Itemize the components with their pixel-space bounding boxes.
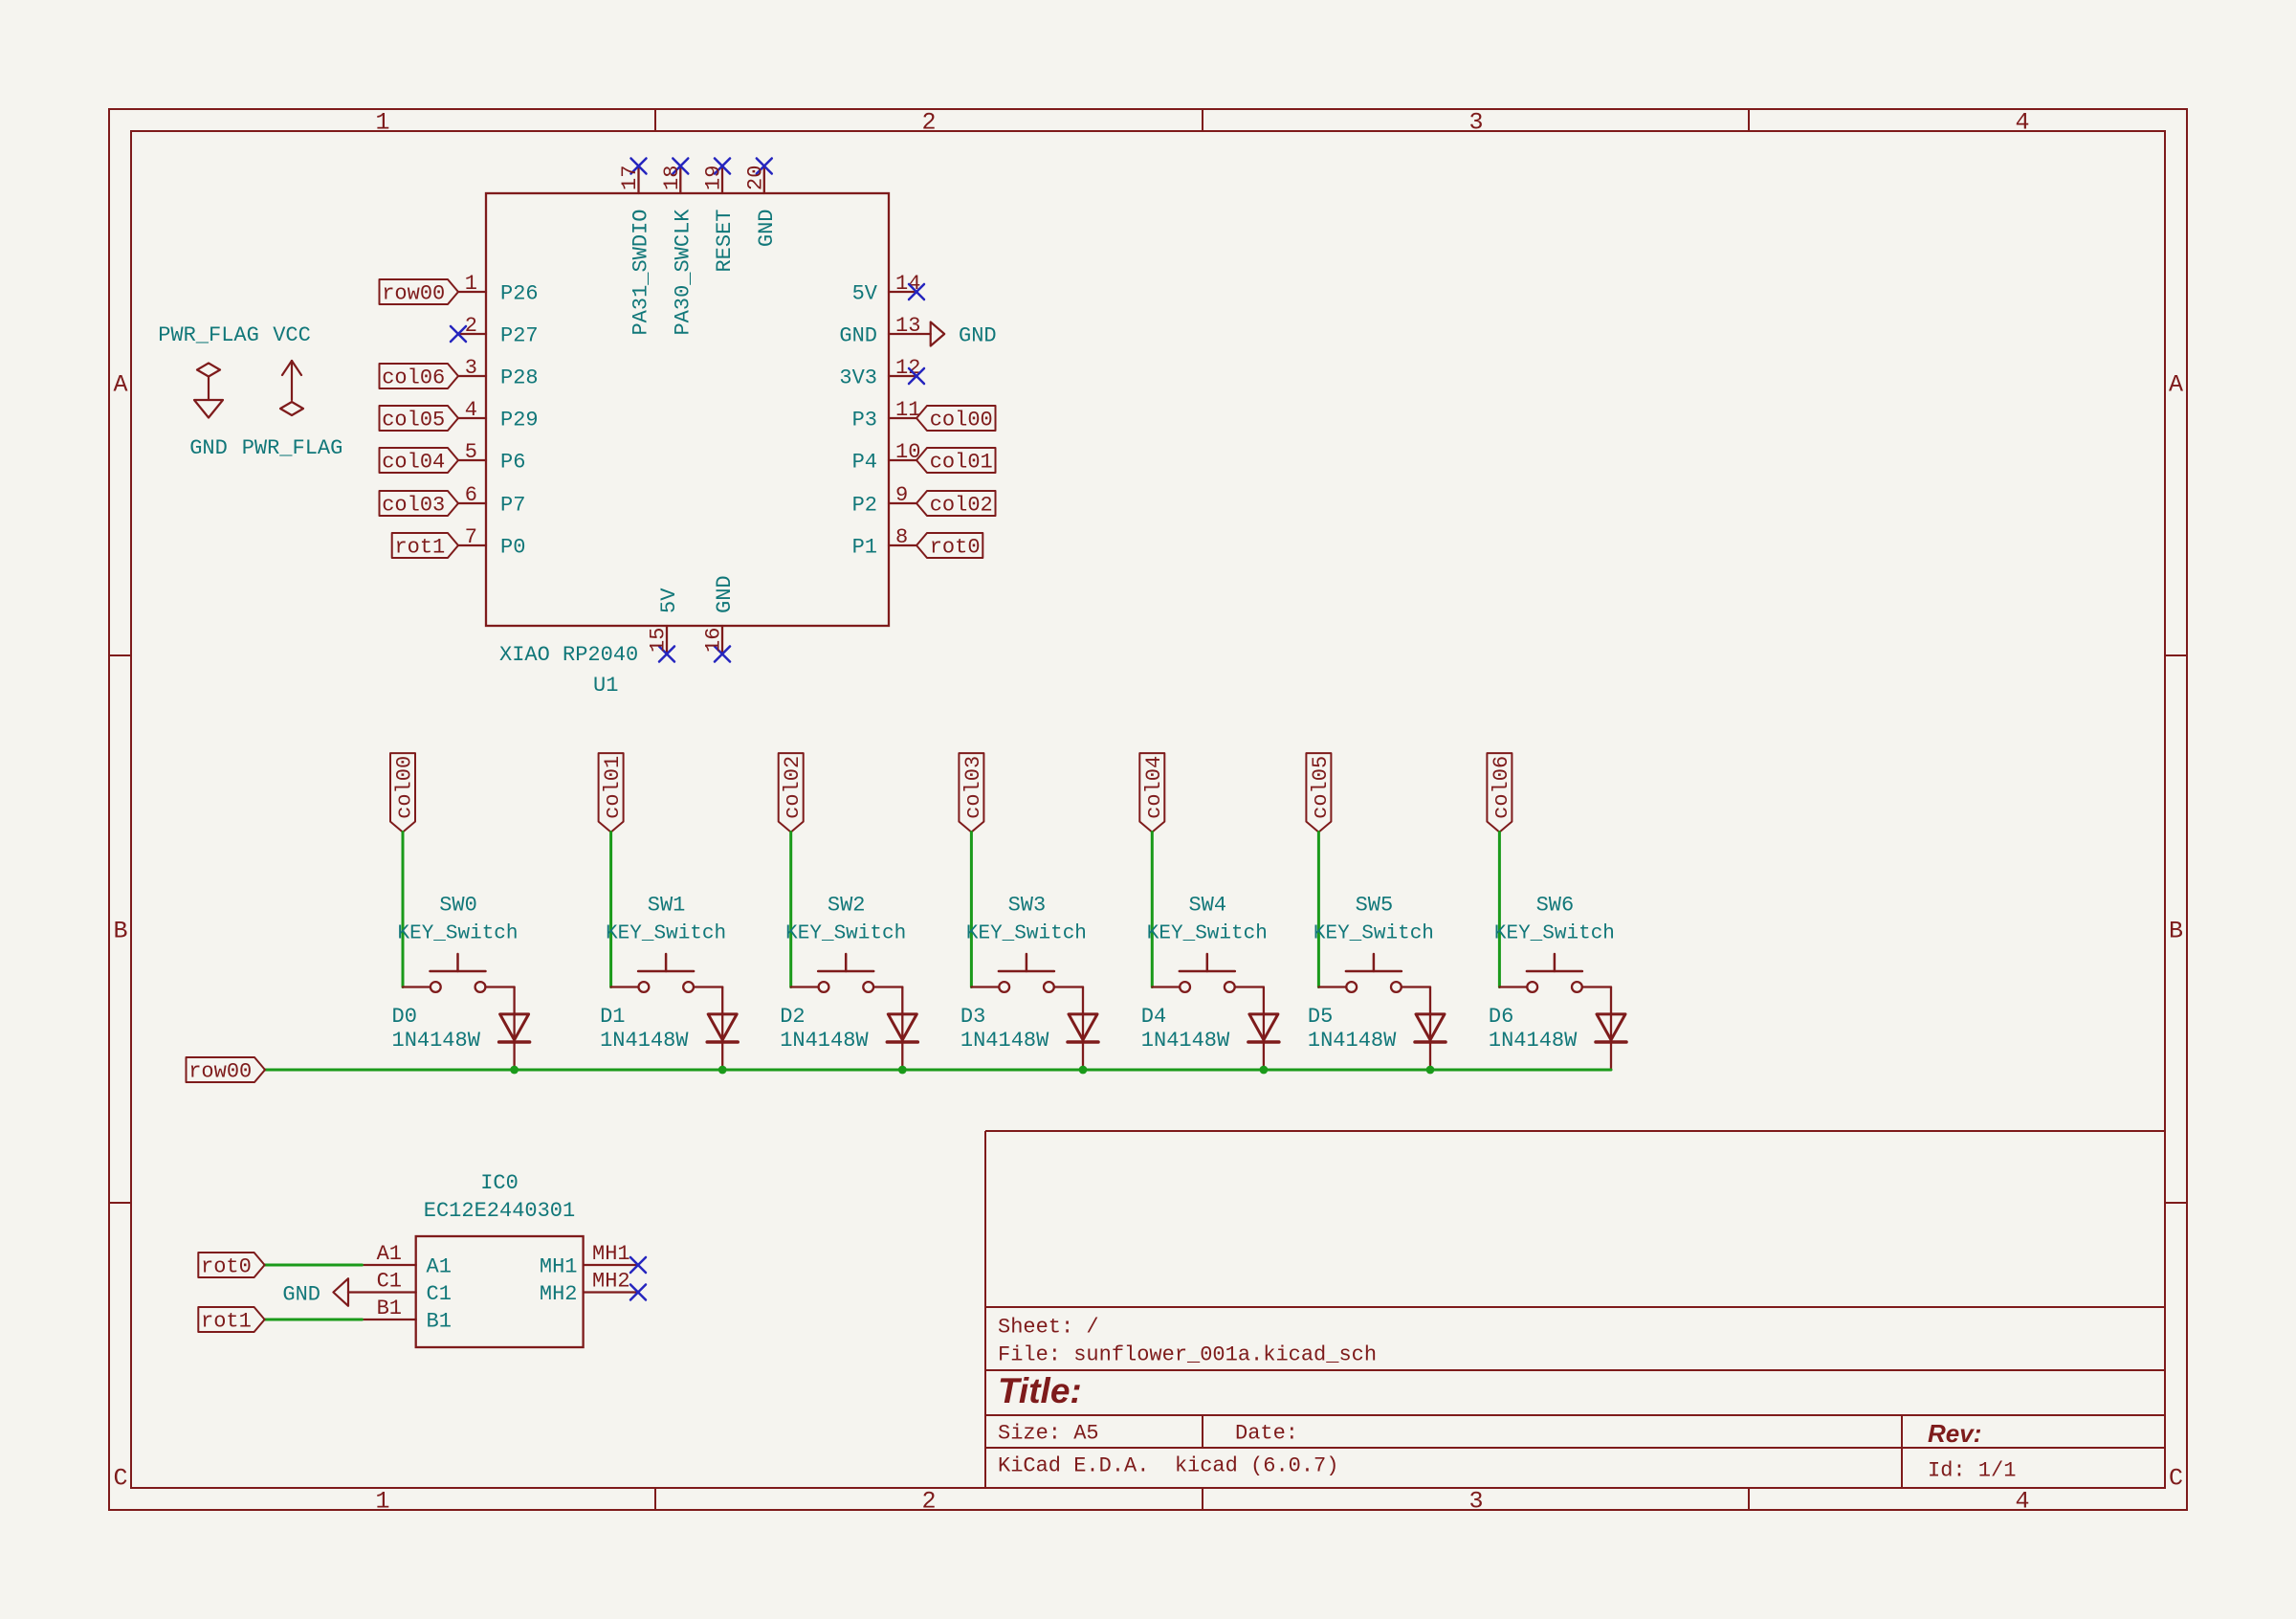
svg-text:KEY_Switch: KEY_Switch — [966, 923, 1087, 945]
svg-text:col03: col03 — [961, 756, 985, 819]
svg-text:D5: D5 — [1308, 1005, 1333, 1029]
svg-text:col02: col02 — [781, 756, 805, 819]
svg-text:MH2: MH2 — [540, 1282, 578, 1306]
svg-text:SW2: SW2 — [828, 894, 866, 918]
svg-text:P29: P29 — [500, 409, 539, 432]
svg-text:6: 6 — [465, 483, 477, 507]
svg-text:3: 3 — [1468, 1488, 1483, 1516]
svg-text:GND: GND — [755, 210, 779, 248]
svg-text:Size: A5: Size: A5 — [998, 1422, 1099, 1446]
svg-text:15: 15 — [647, 628, 671, 653]
svg-text:A: A — [2169, 371, 2183, 399]
svg-text:rot1: rot1 — [201, 1310, 252, 1334]
svg-text:C: C — [113, 1465, 127, 1493]
svg-text:1N4148W: 1N4148W — [392, 1029, 481, 1053]
svg-text:9: 9 — [895, 483, 908, 507]
svg-text:MH1: MH1 — [540, 1255, 578, 1279]
svg-text:Date:: Date: — [1235, 1422, 1298, 1446]
svg-text:GND: GND — [959, 324, 997, 348]
svg-text:GND: GND — [713, 575, 737, 613]
svg-text:EC12E2440301: EC12E2440301 — [424, 1199, 575, 1223]
svg-text:D4: D4 — [1141, 1005, 1166, 1029]
svg-text:1: 1 — [465, 272, 477, 296]
svg-text:SW5: SW5 — [1356, 894, 1394, 918]
svg-text:5V: 5V — [852, 282, 878, 306]
svg-text:P2: P2 — [852, 494, 877, 518]
svg-text:SW1: SW1 — [648, 894, 686, 918]
svg-text:col03: col03 — [382, 494, 445, 518]
svg-text:SW6: SW6 — [1536, 894, 1575, 918]
svg-text:RESET: RESET — [713, 210, 737, 273]
svg-text:1N4148W: 1N4148W — [960, 1029, 1049, 1053]
svg-text:C1: C1 — [377, 1270, 402, 1294]
svg-text:col00: col00 — [393, 756, 417, 819]
svg-text:7: 7 — [465, 525, 477, 549]
svg-text:P27: P27 — [500, 324, 539, 348]
svg-text:MH2: MH2 — [592, 1270, 630, 1294]
svg-text:col04: col04 — [1142, 756, 1166, 819]
svg-text:col05: col05 — [1309, 756, 1333, 819]
svg-text:col00: col00 — [930, 409, 993, 432]
svg-text:SW0: SW0 — [439, 894, 477, 918]
svg-text:4: 4 — [2015, 1488, 2029, 1516]
svg-text:col04: col04 — [382, 451, 445, 475]
svg-text:2: 2 — [921, 1488, 936, 1516]
svg-text:GND: GND — [282, 1283, 320, 1307]
svg-text:U1: U1 — [593, 674, 618, 698]
svg-text:IC0: IC0 — [480, 1171, 519, 1195]
svg-text:col02: col02 — [930, 494, 993, 518]
svg-text:17: 17 — [618, 166, 642, 190]
svg-text:C1: C1 — [427, 1282, 452, 1306]
svg-text:rot0: rot0 — [201, 1255, 252, 1279]
svg-text:1N4148W: 1N4148W — [780, 1029, 869, 1053]
svg-text:File: sunflower_001a.kicad_sch: File: sunflower_001a.kicad_sch — [998, 1343, 1377, 1367]
svg-text:P28: P28 — [500, 366, 539, 390]
svg-text:3V3: 3V3 — [839, 366, 877, 390]
svg-text:KEY_Switch: KEY_Switch — [1314, 923, 1434, 945]
svg-text:D3: D3 — [960, 1005, 985, 1029]
svg-text:D2: D2 — [780, 1005, 805, 1029]
svg-text:P3: P3 — [852, 409, 877, 432]
svg-text:1N4148W: 1N4148W — [1141, 1029, 1230, 1053]
svg-text:A: A — [113, 371, 127, 399]
svg-text:MH1: MH1 — [592, 1242, 630, 1266]
svg-text:P0: P0 — [500, 536, 525, 560]
svg-text:16: 16 — [702, 628, 726, 653]
svg-text:KiCad E.D.A. kicad (6.0.7): KiCad E.D.A. kicad (6.0.7) — [998, 1454, 1338, 1478]
svg-text:col05: col05 — [382, 409, 445, 432]
svg-text:col06: col06 — [382, 366, 445, 390]
svg-text:B: B — [2169, 918, 2183, 945]
svg-text:PA30_SWCLK: PA30_SWCLK — [671, 209, 695, 336]
svg-text:1: 1 — [375, 109, 389, 137]
svg-text:B1: B1 — [377, 1297, 402, 1320]
svg-text:3: 3 — [1468, 109, 1483, 137]
svg-text:KEY_Switch: KEY_Switch — [606, 923, 726, 945]
svg-text:C: C — [2169, 1465, 2183, 1493]
svg-text:Id: 1/1: Id: 1/1 — [1928, 1459, 2016, 1483]
svg-text:col01: col01 — [930, 451, 993, 475]
svg-text:PA31_SWDIO: PA31_SWDIO — [629, 210, 653, 336]
svg-text:D6: D6 — [1489, 1005, 1513, 1029]
svg-text:1: 1 — [375, 1488, 389, 1516]
svg-text:Sheet: /: Sheet: / — [998, 1316, 1099, 1340]
svg-text:2: 2 — [921, 109, 936, 137]
svg-text:Rev:: Rev: — [1928, 1419, 1981, 1448]
svg-text:KEY_Switch: KEY_Switch — [1147, 923, 1268, 945]
svg-text:5V: 5V — [657, 588, 681, 613]
svg-text:P6: P6 — [500, 451, 525, 475]
svg-text:SW3: SW3 — [1008, 894, 1047, 918]
svg-text:col01: col01 — [601, 756, 625, 819]
svg-text:P1: P1 — [852, 536, 877, 560]
svg-text:A1: A1 — [427, 1255, 452, 1279]
svg-text:5: 5 — [465, 440, 477, 464]
svg-text:rot1: rot1 — [394, 536, 445, 560]
svg-text:PWR_FLAG: PWR_FLAG — [158, 323, 259, 347]
svg-text:1N4148W: 1N4148W — [1308, 1029, 1397, 1053]
svg-text:P7: P7 — [500, 494, 525, 518]
svg-text:KEY_Switch: KEY_Switch — [397, 923, 518, 945]
svg-text:B: B — [113, 918, 127, 945]
svg-text:P4: P4 — [852, 451, 877, 475]
svg-text:4: 4 — [2015, 109, 2029, 137]
svg-text:D0: D0 — [392, 1005, 417, 1029]
svg-text:SW4: SW4 — [1188, 894, 1226, 918]
svg-text:D1: D1 — [600, 1005, 625, 1029]
svg-text:8: 8 — [895, 525, 908, 549]
svg-text:row00: row00 — [382, 282, 445, 306]
svg-text:19: 19 — [702, 166, 726, 190]
svg-text:A1: A1 — [377, 1242, 402, 1266]
svg-text:1N4148W: 1N4148W — [600, 1029, 689, 1053]
svg-text:P26: P26 — [500, 282, 539, 306]
svg-text:KEY_Switch: KEY_Switch — [785, 923, 906, 945]
svg-text:col06: col06 — [1490, 756, 1513, 819]
svg-text:3: 3 — [465, 356, 477, 380]
svg-text:GND: GND — [189, 436, 228, 460]
svg-text:B1: B1 — [427, 1310, 452, 1334]
svg-text:XIAO RP2040: XIAO RP2040 — [499, 643, 638, 667]
svg-text:GND: GND — [839, 324, 877, 348]
svg-text:PWR_FLAG: PWR_FLAG — [242, 436, 343, 460]
svg-text:18: 18 — [660, 166, 684, 190]
svg-text:rot0: rot0 — [930, 536, 981, 560]
svg-text:row00: row00 — [188, 1060, 252, 1084]
svg-text:Title:: Title: — [998, 1371, 1082, 1410]
svg-text:KEY_Switch: KEY_Switch — [1494, 923, 1615, 945]
svg-text:20: 20 — [743, 166, 767, 190]
svg-text:1N4148W: 1N4148W — [1489, 1029, 1578, 1053]
svg-text:VCC: VCC — [273, 323, 311, 347]
svg-text:4: 4 — [465, 398, 477, 422]
